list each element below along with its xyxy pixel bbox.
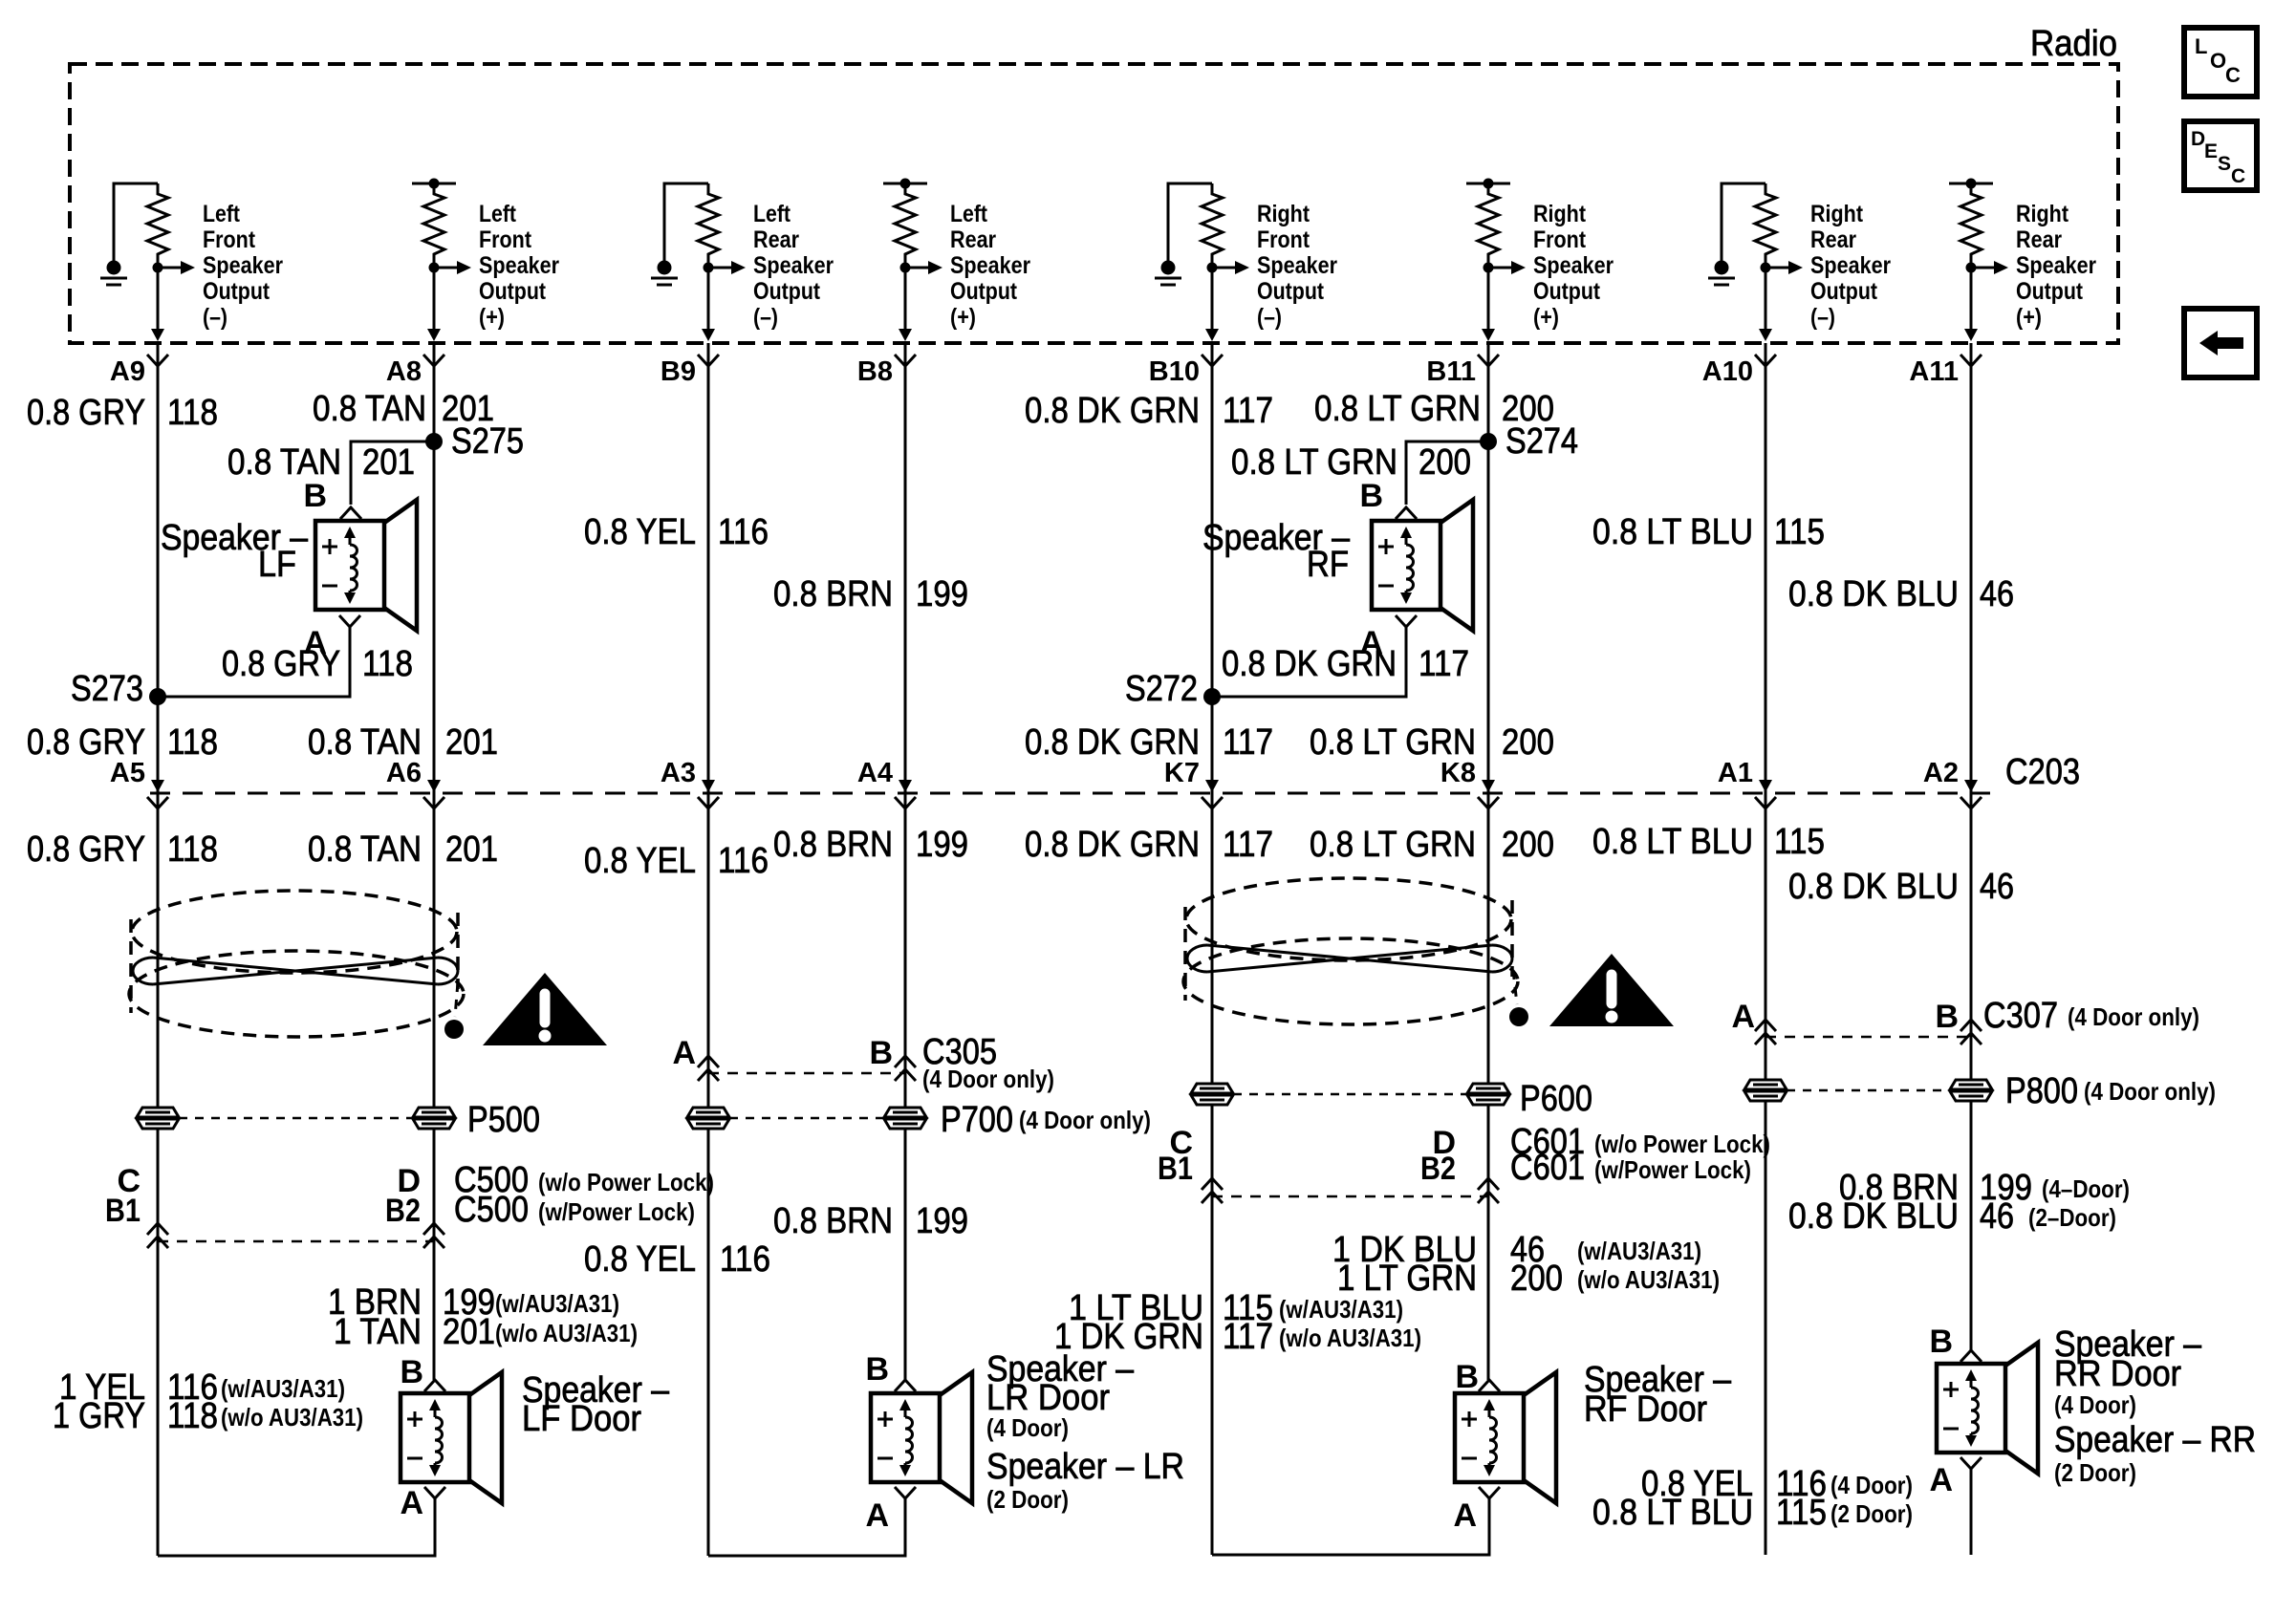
svg-text:(–): (–) (203, 304, 227, 331)
svg-text:Rear: Rear (2016, 226, 2062, 253)
connector C601 dashed line (1212, 1195, 1488, 1198)
wire top bar with junction dot (B11) (1466, 183, 1510, 185)
wire S275 to speaker LF pin B (351, 441, 434, 505)
wire down to radio connector pin B9 (707, 268, 710, 334)
svg-text:A: A (1929, 1462, 1953, 1498)
svg-text:(4 Door only): (4 Door only) (922, 1065, 1054, 1093)
svg-text:B2: B2 (385, 1193, 421, 1229)
pin A speaker RF (1396, 615, 1417, 627)
svg-text:46: 46 (1980, 574, 2014, 614)
Radio component dashed box (70, 64, 2118, 343)
svg-text:0.8 YEL: 0.8 YEL (584, 512, 696, 552)
svg-text:B: B (1935, 999, 1959, 1035)
svg-text:(w/o Power Lock): (w/o Power Lock) (1594, 1130, 1770, 1158)
svg-text:B: B (1929, 1324, 1953, 1360)
svg-text:LF: LF (258, 545, 296, 585)
svg-text:(w/o AU3/A31): (w/o AU3/A31) (221, 1403, 363, 1432)
svg-text:(–): (–) (1810, 304, 1835, 331)
svg-text:(w/AU3/A31): (w/AU3/A31) (221, 1374, 345, 1403)
svg-text:0.8 LT GRN: 0.8 LT GRN (1231, 442, 1397, 483)
svg-text:B1: B1 (105, 1193, 141, 1229)
svg-text:A10: A10 (1702, 356, 1753, 387)
svg-text:P800: P800 (2005, 1071, 2078, 1111)
svg-text:S273: S273 (71, 669, 143, 709)
connector C305 dashed line (708, 1072, 905, 1075)
svg-text:(w/o AU3/A31): (w/o AU3/A31) (495, 1319, 638, 1347)
svg-text:0.8 TAN: 0.8 TAN (313, 389, 426, 429)
connector C601 terminal marks (1202, 1178, 1223, 1190)
svg-text:B2: B2 (1420, 1151, 1456, 1187)
resistor (speaker output driver B9) (698, 183, 719, 268)
svg-text:Speaker – RR: Speaker – RR (2054, 1420, 2256, 1460)
svg-text:0.8 LT BLU: 0.8 LT BLU (1592, 822, 1753, 862)
svg-text:(+): (+) (479, 304, 505, 331)
svg-text:RR Door: RR Door (2054, 1354, 2181, 1394)
grommet P800 (right rear door, 4 Door only) (1744, 1080, 1787, 1089)
junction node with output arrow (A11) (1966, 263, 1977, 273)
speaker LF (315, 521, 384, 610)
svg-text:0.8 DK BLU: 0.8 DK BLU (1788, 1196, 1959, 1237)
svg-text:B1: B1 (1158, 1151, 1193, 1187)
svg-text:C601: C601 (1510, 1148, 1585, 1188)
warning note triangle (RF) (1549, 954, 1674, 1026)
svg-text:Output: Output (753, 278, 821, 305)
svg-text:Radio: Radio (2030, 24, 2117, 64)
junction node with output arrow (B11) (1484, 263, 1494, 273)
svg-text:RF Door: RF Door (1584, 1389, 1707, 1430)
svg-text:Speaker: Speaker (203, 252, 283, 279)
svg-text:B: B (400, 1354, 423, 1390)
wire top bar with junction dot (A8) (412, 183, 456, 185)
ground (radio internal, col B10) (1161, 261, 1176, 275)
svg-text:(w/Power Lock): (w/Power Lock) (1594, 1155, 1751, 1184)
resistor (speaker output driver B8) (895, 183, 916, 268)
svg-text:0.8 DK GRN: 0.8 DK GRN (1222, 644, 1397, 684)
svg-text:A8: A8 (386, 356, 422, 387)
svg-text:B: B (1359, 478, 1383, 514)
wire ground to resistor A9 (114, 183, 158, 261)
svg-text:Speaker: Speaker (479, 252, 559, 279)
svg-text:B11: B11 (1426, 356, 1476, 387)
junction node with output arrow (B10) (1207, 263, 1218, 273)
wire circuit RF (+) LT GRN 200 (1487, 343, 1490, 1380)
junction node with output arrow (A8) (429, 263, 440, 273)
radio connector terminal mark B9 (698, 355, 719, 366)
svg-text:116: 116 (718, 512, 769, 552)
svg-text:(+): (+) (1533, 304, 1559, 331)
speaker RF (1372, 521, 1440, 610)
svg-text:L: L (2195, 34, 2207, 58)
resistor (speaker output driver B11) (1478, 183, 1499, 268)
svg-text:(4 Door): (4 Door) (1830, 1471, 1913, 1499)
svg-text:K8: K8 (1440, 758, 1476, 788)
twisted-pair shield (dashed loops) (1186, 878, 1511, 960)
svg-text:Speaker – LR: Speaker – LR (986, 1447, 1184, 1487)
back-arrow box (2184, 309, 2257, 377)
svg-text:0.8 GRY: 0.8 GRY (222, 644, 340, 684)
radio connector terminal mark A9 (147, 355, 168, 366)
svg-text:Rear: Rear (753, 226, 799, 253)
svg-text:Front: Front (479, 226, 532, 253)
splice S274 (1480, 433, 1497, 450)
svg-text:115: 115 (1774, 512, 1825, 552)
svg-text:Output: Output (203, 278, 271, 305)
svg-text:0.8 TAN: 0.8 TAN (308, 829, 422, 870)
wire circuit RF (-) DK GRN 117 (1211, 343, 1214, 1555)
svg-text:201: 201 (362, 442, 415, 483)
warning note triangle (LF) (483, 973, 607, 1045)
svg-text:Output: Output (1810, 278, 1878, 305)
svg-text:200: 200 (1502, 722, 1554, 763)
svg-text:(4 Door): (4 Door) (2054, 1390, 2136, 1419)
svg-text:B: B (865, 1351, 889, 1388)
grommet P600 (right front door) (1191, 1084, 1233, 1093)
svg-text:Output: Output (479, 278, 547, 305)
svg-text:0.8 DK BLU: 0.8 DK BLU (1788, 867, 1959, 907)
svg-text:A11: A11 (1909, 356, 1959, 387)
wire RR door speaker A to return (1970, 1469, 1973, 1555)
svg-text:(+): (+) (2016, 304, 2042, 331)
svg-text:46: 46 (1980, 867, 2014, 907)
radio connector terminal mark B11 (1478, 355, 1499, 366)
svg-text:P600: P600 (1520, 1079, 1592, 1119)
speaker LF Door (401, 1393, 469, 1482)
svg-text:C500: C500 (454, 1190, 529, 1230)
svg-text:200: 200 (1502, 825, 1554, 865)
wire speaker LR door return to LR(-) (708, 1498, 905, 1556)
svg-text:1 LT GRN: 1 LT GRN (1337, 1259, 1477, 1299)
svg-text:0.8 LT GRN: 0.8 LT GRN (1314, 389, 1481, 429)
svg-text:199: 199 (916, 574, 968, 614)
svg-text:(w/o AU3/A31): (w/o AU3/A31) (1279, 1324, 1421, 1352)
svg-text:A6: A6 (386, 758, 422, 788)
wire down to radio connector pin B11 (1487, 268, 1490, 334)
wire speaker RF pin A to splice S272 (1212, 627, 1406, 697)
svg-text:E: E (2204, 140, 2218, 162)
junction node with output arrow (B9) (704, 263, 714, 273)
svg-text:Speaker: Speaker (1810, 252, 1891, 279)
resistor (speaker output driver A8) (423, 183, 444, 268)
svg-text:B9: B9 (661, 356, 696, 387)
svg-text:A: A (1453, 1497, 1477, 1534)
speaker RF Door pin A (1479, 1487, 1500, 1498)
ground (radio internal, col A10) (1715, 261, 1729, 275)
svg-text:116: 116 (720, 1239, 770, 1280)
resistor (speaker output driver A10) (1755, 183, 1776, 268)
svg-text:LR Door: LR Door (986, 1378, 1110, 1418)
svg-text:46: 46 (1980, 1196, 2014, 1237)
wire circuit LF (-) GRY 118 (157, 343, 160, 1556)
radio connector terminal mark B8 (895, 355, 916, 366)
grommet P500 (left front door) (137, 1108, 179, 1117)
svg-text:(w/o AU3/A31): (w/o AU3/A31) (1577, 1265, 1720, 1294)
resistor (speaker output driver A9) (147, 183, 168, 268)
svg-text:0.8 LT BLU: 0.8 LT BLU (1592, 1493, 1753, 1533)
wire circuit LR (-) YEL 116 (707, 343, 710, 1556)
grommet P700 (left rear door, 4 Door only) (687, 1108, 729, 1117)
svg-text:(4 Door only): (4 Door only) (2084, 1077, 2216, 1106)
svg-text:(2–Door): (2–Door) (2028, 1203, 2116, 1232)
svg-text:(w/AU3/A31): (w/AU3/A31) (1279, 1295, 1403, 1324)
svg-text:B: B (869, 1035, 893, 1071)
svg-text:0.8 DK GRN: 0.8 DK GRN (1025, 722, 1200, 763)
svg-text:Right: Right (1810, 201, 1864, 227)
svg-text:C203: C203 (2005, 752, 2080, 792)
svg-text:116: 116 (718, 841, 769, 881)
svg-text:201: 201 (445, 722, 498, 763)
svg-text:0.8 BRN: 0.8 BRN (773, 1201, 893, 1241)
speaker LR Door (871, 1393, 940, 1482)
svg-text:1 TAN: 1 TAN (334, 1312, 422, 1352)
svg-text:C: C (2225, 63, 2241, 87)
svg-text:Output: Output (1257, 278, 1325, 305)
junction node with output arrow (A9) (153, 263, 163, 273)
svg-text:0.8 YEL: 0.8 YEL (584, 1239, 696, 1280)
svg-text:B: B (303, 478, 327, 514)
wire down to radio connector pin A11 (1970, 268, 1973, 334)
svg-text:(w/o Power Lock): (w/o Power Lock) (538, 1168, 714, 1196)
svg-text:A1: A1 (1718, 758, 1753, 788)
speaker RR Door pin A (1960, 1457, 1982, 1469)
svg-text:(w/AU3/A31): (w/AU3/A31) (495, 1289, 619, 1318)
svg-text:0.8 DK GRN: 0.8 DK GRN (1025, 825, 1200, 865)
ground (radio internal, col A9) (107, 261, 121, 275)
svg-text:A4: A4 (857, 758, 893, 788)
svg-text:117: 117 (1223, 1317, 1273, 1357)
svg-text:0.8 GRY: 0.8 GRY (27, 829, 145, 870)
svg-text:200: 200 (1510, 1259, 1563, 1299)
twisted-pair shield (dashed loops) (132, 891, 457, 973)
svg-text:RF: RF (1307, 545, 1349, 585)
svg-text:Front: Front (1257, 226, 1310, 253)
splice S273 (149, 688, 166, 705)
svg-text:118: 118 (167, 829, 218, 870)
svg-text:0.8 LT GRN: 0.8 LT GRN (1310, 825, 1476, 865)
svg-text:B8: B8 (857, 356, 893, 387)
resistor (speaker output driver A11) (1960, 183, 1982, 268)
svg-text:0.8 DK BLU: 0.8 DK BLU (1788, 574, 1959, 614)
wire speaker LF door return to LF(-) (158, 1498, 435, 1556)
connector C203 dashed line (150, 792, 1998, 795)
svg-text:A: A (1731, 999, 1755, 1035)
wire top bar with junction dot (B8) (883, 183, 927, 185)
svg-text:Left: Left (479, 201, 517, 227)
speaker RR Door (1937, 1364, 2005, 1453)
svg-text:115: 115 (1774, 822, 1825, 862)
wire down to radio connector pin B10 (1211, 268, 1214, 334)
svg-text:O: O (2210, 49, 2226, 73)
wire down to radio connector pin A8 (433, 268, 436, 334)
svg-text:118: 118 (167, 393, 218, 433)
svg-text:201: 201 (443, 1312, 495, 1352)
svg-text:Output: Output (950, 278, 1018, 305)
svg-text:B10: B10 (1149, 356, 1200, 387)
svg-text:(–): (–) (1257, 304, 1282, 331)
wire circuit RR (-) LT BLU 115 (1765, 343, 1767, 1555)
svg-text:LF Door: LF Door (522, 1399, 641, 1439)
ground (radio internal, col B9) (658, 261, 672, 275)
svg-text:0.8 LT BLU: 0.8 LT BLU (1592, 512, 1753, 552)
svg-text:Speaker: Speaker (2016, 252, 2096, 279)
svg-text:S272: S272 (1125, 669, 1198, 709)
svg-text:P500: P500 (467, 1100, 540, 1140)
svg-text:(2 Door): (2 Door) (986, 1485, 1069, 1514)
svg-text:Right: Right (2016, 201, 2069, 227)
dashed lead to note dot (455, 982, 458, 1017)
svg-text:0.8 BRN: 0.8 BRN (773, 574, 893, 614)
wire circuit LF (+) TAN 201 (433, 343, 436, 1380)
svg-text:Right: Right (1257, 201, 1310, 227)
junction node with output arrow (A10) (1761, 263, 1771, 273)
svg-text:0.8 LT GRN: 0.8 LT GRN (1310, 722, 1476, 763)
svg-text:Speaker: Speaker (1533, 252, 1614, 279)
svg-text:S: S (2218, 153, 2231, 175)
splice S272 (1203, 688, 1221, 705)
svg-text:Front: Front (203, 226, 256, 253)
svg-text:0.8 TAN: 0.8 TAN (308, 722, 422, 763)
svg-text:199: 199 (916, 825, 968, 865)
svg-text:1 GRY: 1 GRY (53, 1396, 145, 1436)
radio connector terminal mark A11 (1960, 355, 1982, 366)
svg-text:(4 Door only): (4 Door only) (1019, 1106, 1151, 1134)
svg-text:(2 Door): (2 Door) (2054, 1458, 2136, 1487)
svg-text:0.8 GRY: 0.8 GRY (27, 393, 145, 433)
speaker LF Door pin A (424, 1487, 445, 1498)
speaker LR Door pin A (895, 1487, 916, 1498)
svg-text:A: A (672, 1035, 696, 1071)
svg-text:A3: A3 (661, 758, 696, 788)
wire ground to resistor A10 (1722, 183, 1765, 261)
resistor (speaker output driver B10) (1202, 183, 1223, 268)
svg-text:Left: Left (753, 201, 791, 227)
svg-text:Rear: Rear (950, 226, 996, 253)
wire ground to resistor B10 (1168, 183, 1212, 261)
svg-text:Speaker: Speaker (950, 252, 1030, 279)
svg-text:0.8 BRN: 0.8 BRN (773, 825, 893, 865)
wire speaker LF pin A to splice S273 (158, 627, 350, 697)
svg-text:118: 118 (167, 1396, 218, 1436)
radio connector terminal mark A8 (423, 355, 444, 366)
junction node with output arrow (B8) (900, 263, 911, 273)
svg-text:A9: A9 (110, 356, 145, 387)
dashed lead to note dot (1513, 970, 1517, 1004)
twisted-pair crossed wires (153, 958, 438, 984)
svg-text:Output: Output (1533, 278, 1601, 305)
svg-text:Speaker: Speaker (1257, 252, 1337, 279)
svg-text:A: A (400, 1485, 423, 1521)
wire ground to resistor B9 (664, 183, 708, 261)
twisted-pair crossed wires (1207, 945, 1492, 972)
svg-text:C: C (2231, 165, 2245, 187)
svg-text:Output: Output (2016, 278, 2084, 305)
svg-text:(+): (+) (950, 304, 976, 331)
wire speaker RF door return to RF(-) (1212, 1498, 1489, 1555)
svg-text:(4–Door): (4–Door) (2042, 1174, 2130, 1203)
svg-text:(w/Power Lock): (w/Power Lock) (538, 1197, 695, 1226)
svg-text:0.8 GRY: 0.8 GRY (27, 722, 145, 763)
pin A speaker LF (339, 615, 360, 627)
DESC reference box (2184, 121, 2257, 190)
svg-text:(2 Door): (2 Door) (1830, 1499, 1913, 1528)
splice S275 (425, 433, 443, 450)
connector C307 dashed line (1765, 1036, 1971, 1039)
svg-text:C307: C307 (1983, 996, 2058, 1036)
svg-text:S275: S275 (451, 421, 524, 462)
svg-text:S274: S274 (1505, 421, 1578, 462)
svg-text:A2: A2 (1923, 758, 1959, 788)
svg-text:0.8 TAN: 0.8 TAN (227, 442, 341, 483)
svg-text:200: 200 (1419, 442, 1471, 483)
svg-text:(4 Door only): (4 Door only) (2068, 1002, 2199, 1031)
svg-text:117: 117 (1223, 722, 1273, 763)
wire S274 to speaker RF pin B (1406, 441, 1488, 505)
svg-text:(–): (–) (753, 304, 778, 331)
wire down to radio connector pin B8 (904, 268, 907, 334)
svg-text:Left: Left (203, 201, 241, 227)
svg-text:Rear: Rear (1810, 226, 1856, 253)
wire down to radio connector pin A9 (157, 268, 160, 334)
svg-text:A: A (865, 1497, 889, 1534)
svg-text:D: D (2191, 128, 2205, 150)
svg-text:117: 117 (1223, 391, 1273, 431)
LOC reference box (2184, 28, 2257, 97)
svg-text:115: 115 (1776, 1493, 1827, 1533)
connector C500 dashed line (158, 1240, 434, 1243)
wire down to radio connector pin A10 (1765, 268, 1767, 334)
svg-text:117: 117 (1223, 825, 1273, 865)
svg-text:Speaker: Speaker (753, 252, 834, 279)
radio connector terminal mark B10 (1202, 355, 1223, 366)
speaker RF Door (1455, 1393, 1524, 1482)
svg-text:117: 117 (1419, 644, 1469, 684)
svg-text:Front: Front (1533, 226, 1587, 253)
svg-text:Left: Left (950, 201, 988, 227)
svg-text:A5: A5 (110, 758, 145, 788)
svg-text:P700: P700 (941, 1100, 1013, 1140)
svg-text:(4 Door): (4 Door) (986, 1413, 1069, 1442)
connector C500 terminal marks (147, 1223, 168, 1235)
svg-text:B: B (1455, 1359, 1479, 1395)
svg-text:K7: K7 (1164, 758, 1200, 788)
svg-text:(w/AU3/A31): (w/AU3/A31) (1577, 1237, 1701, 1265)
svg-text:0.8 YEL: 0.8 YEL (584, 841, 696, 881)
svg-text:Right: Right (1533, 201, 1587, 227)
svg-text:0.8 DK GRN: 0.8 DK GRN (1025, 391, 1200, 431)
wire circuit LR (+) BRN 199 (904, 343, 907, 1380)
svg-text:118: 118 (167, 722, 218, 763)
svg-text:118: 118 (362, 644, 413, 684)
svg-text:201: 201 (445, 829, 498, 870)
wire circuit RR (+) DK BLU 46 (1970, 343, 1973, 1350)
svg-text:199: 199 (916, 1201, 968, 1241)
radio connector terminal mark A10 (1755, 355, 1776, 366)
wire top bar with junction dot (A11) (1949, 183, 1993, 185)
